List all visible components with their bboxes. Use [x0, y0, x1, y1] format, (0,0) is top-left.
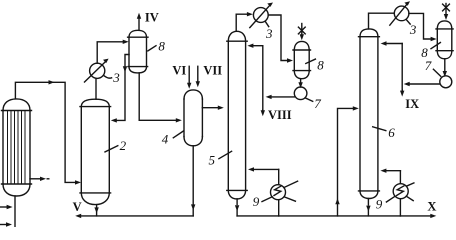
wire: column 6 bottoms down arrow	[366, 199, 370, 216]
wire: separator 8 to pump 7	[298, 79, 302, 89]
wire: separator 8 to pump 7 (third)	[443, 59, 447, 77]
wire: column 2 overhead to condenser 3	[95, 79, 97, 99]
svg-text:X: X	[427, 199, 436, 213]
wire: condenser 3 to separator 8	[97, 40, 129, 64]
wire: stream IX arrow	[400, 90, 404, 97]
separator 8 (second) body	[293, 41, 311, 78]
condenser 3 (third)	[390, 1, 410, 25]
wire: column 5 overhead to condenser 3	[236, 12, 253, 31]
vessel 4 body (capsule)	[184, 90, 202, 146]
wire: reboiler 9 riser (second)	[399, 171, 401, 216]
svg-text:2: 2	[120, 138, 127, 153]
wire: evaporator 1 overhead to column 2 feed	[15, 80, 81, 184]
wire: stream VI arrow	[187, 66, 191, 88]
label 5	[209, 151, 232, 167]
label 8 (third)	[421, 43, 440, 61]
svg-text:IV: IV	[145, 11, 159, 25]
wire: vessel 4 outlet to column 5	[202, 106, 223, 110]
wire: column 5 bottoms down arrow	[235, 199, 239, 216]
label 8 (second)	[306, 58, 324, 73]
reboiler 9 (first)	[262, 181, 298, 201]
condenser 3 (second)	[250, 3, 273, 28]
wire: column 2 bottoms down arrow	[94, 205, 98, 216]
wire: pump 7 discharge to reflux junction	[266, 95, 295, 99]
label 7 (second)	[305, 96, 321, 111]
wire: separator 8 bottoms to vessel 4	[139, 73, 182, 123]
wire: vessel 4 bottoms to line V	[191, 146, 195, 216]
svg-text:7: 7	[314, 96, 321, 111]
wire: stream X header line	[237, 214, 436, 218]
svg-text:9: 9	[253, 194, 260, 209]
coolant arrow with cross (second separator)	[298, 24, 305, 41]
wire: column 6 overhead to condenser 3 (third)	[369, 13, 395, 29]
column 6 body	[359, 29, 380, 199]
column 5 body	[227, 31, 247, 199]
svg-text:V: V	[73, 200, 82, 214]
column 2 body	[80, 99, 111, 204]
label 8 (first)	[148, 39, 166, 54]
separator 8 (first) body	[128, 30, 148, 73]
svg-text:9: 9	[376, 197, 383, 212]
wire: condenser 3 to separator 8 (second)	[268, 15, 293, 63]
svg-text:3: 3	[409, 22, 417, 37]
wire: stream IV arrow	[137, 13, 141, 31]
wire: column 6 feed riser	[335, 106, 359, 216]
wire: feed arrow I lower	[0, 222, 12, 226]
wire: stream V header line	[75, 214, 193, 218]
wire: evaporator 1 side outlet arrow	[30, 177, 49, 181]
tubes inside evaporator 1	[8, 111, 26, 184]
reboiler 9 (second)	[386, 183, 414, 202]
wire: separator 8 reflux to column 2	[111, 55, 129, 123]
coolant arrow with cross (third separator)	[443, 4, 450, 21]
svg-text:3: 3	[265, 26, 273, 41]
wire: reboiler 9 riser (first)	[278, 169, 280, 216]
label 3 (first)	[104, 70, 120, 85]
svg-text:5: 5	[209, 153, 216, 168]
wire: reflux line into column 6	[381, 41, 403, 91]
wire: feed arrow I upper	[0, 205, 13, 209]
separator 8 (third) body	[436, 21, 453, 59]
label 2	[105, 138, 127, 153]
wire: stream VII arrow	[196, 66, 200, 87]
wire: condenser 3 to separator 8 (third)	[409, 13, 437, 41]
svg-text:VIII: VIII	[268, 108, 292, 122]
svg-text:8: 8	[317, 58, 324, 73]
label 3 (third)	[407, 20, 417, 37]
condenser 3 (first)	[85, 59, 109, 82]
svg-text:VII: VII	[203, 63, 222, 77]
label 4	[162, 131, 184, 147]
svg-text:7: 7	[425, 58, 432, 73]
svg-text:VI: VI	[172, 63, 186, 77]
wire: reboiler return into column 5	[248, 167, 279, 171]
wire: pump 7 discharge to reflux junction (third)	[404, 82, 440, 86]
pump 7 (third)	[440, 76, 452, 88]
label 3 (second)	[265, 22, 273, 41]
svg-text:IX: IX	[405, 97, 419, 111]
tube evaporator 1 body	[2, 99, 32, 196]
wire: stream VIII arrow	[261, 110, 265, 116]
wire: reboiler return into column 6	[380, 169, 400, 173]
svg-text:3: 3	[112, 70, 120, 85]
svg-text:4: 4	[162, 132, 169, 147]
label 7 (third)	[425, 58, 441, 76]
label 6	[373, 125, 396, 140]
svg-text:6: 6	[388, 125, 395, 140]
svg-text:8: 8	[158, 39, 165, 54]
pump 7 (second)	[294, 87, 307, 100]
wire: reflux line into column 5	[247, 44, 262, 111]
wire: evaporator 1 bottom pipe	[14, 196, 16, 227]
